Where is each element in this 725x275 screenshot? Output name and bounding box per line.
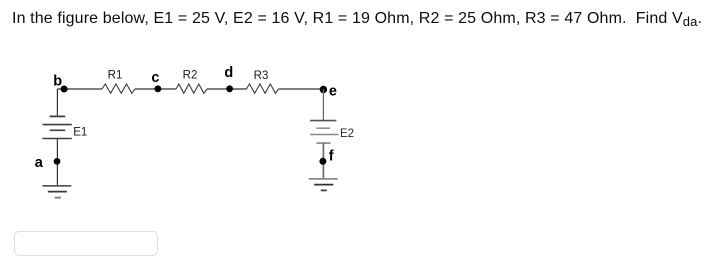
node b [53,73,67,92]
resistor R1 [102,70,135,94]
node e [320,83,337,99]
node f [319,148,333,165]
answer input box [14,231,158,256]
wire R3 to e [278,88,323,90]
wire left vertical b to E1 [56,89,58,116]
battery E2 [310,121,354,144]
svg-text:E2: E2 [340,128,354,140]
node a [35,155,61,171]
svg-text:R2: R2 [183,70,198,82]
svg-text:E1: E1 [73,126,87,138]
resistor R2 [176,70,207,94]
wire E1 to ground with node a [56,139,58,186]
node c [151,70,161,92]
svg-text:f: f [329,148,334,164]
ground left [42,186,71,198]
resistor R3 [246,70,278,93]
svg-text:c: c [151,70,159,86]
wire top horizontal b to R1 [57,88,102,90]
svg-text:R1: R1 [108,70,123,82]
svg-text:b: b [53,73,62,89]
ground right [309,179,338,191]
svg-text:a: a [35,155,44,171]
wire d to R3 [230,88,247,90]
wire c to R2 [158,88,176,90]
battery E1 [42,116,87,138]
svg-text:d: d [224,65,233,81]
wire E2 to ground with node f [322,143,324,178]
svg-text:e: e [329,83,337,99]
wire right vertical e to E2 [322,89,324,121]
wire R1 to c [135,88,158,90]
wire R2 to d [207,88,230,90]
svg-text:R3: R3 [254,70,269,82]
node d [224,65,233,92]
